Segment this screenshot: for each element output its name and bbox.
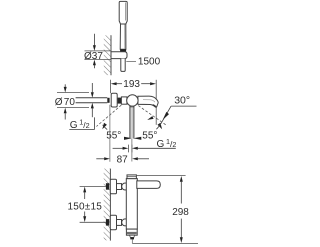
inlet nipple lines — [76, 97, 108, 99]
svg-text:55°: 55° — [142, 130, 157, 141]
svg-text:Ø37: Ø37 — [84, 51, 103, 62]
svg-text:87: 87 — [117, 155, 129, 166]
rod joint dark — [130, 106, 134, 108]
dim 150 ext top — [80, 185, 107, 187]
lever side view — [137, 181, 161, 189]
hand shower head shading — [125, 3, 127, 21]
dim arrows right pair (G1/2 inlet) — [91, 83, 93, 92]
connection 2 dark nipple — [106, 219, 109, 226]
30deg leader arrowhead — [163, 112, 169, 120]
body cap — [127, 175, 136, 179]
outlet nub — [130, 237, 134, 239]
valve circle — [127, 95, 138, 106]
dim Ø70 arrows left pair — [64, 84, 66, 87]
dim 298 ext bottom — [132, 242, 198, 244]
dim 298 ext top — [137, 175, 186, 177]
bracket (holder) — [111, 52, 127, 59]
dashed ray right 55 — [138, 106, 166, 126]
hose below bracket — [121, 59, 125, 72]
wall line bottom — [109, 169, 111, 241]
spout inner shade line — [143, 100, 155, 102]
svg-text:298: 298 — [172, 207, 189, 218]
hand shower head — [119, 1, 127, 24]
spout tip dark shade — [153, 105, 157, 107]
connection 1 dark nipple — [106, 183, 109, 190]
svg-text:193: 193 — [123, 79, 140, 90]
dim G1/2 ext bars — [128, 145, 130, 153]
ray end arrowhead right — [158, 123, 163, 129]
svg-text:1500: 1500 — [138, 57, 161, 68]
dim 87 right arrow — [132, 157, 138, 160]
30deg underline — [171, 105, 196, 107]
connection 1 nut — [117, 184, 122, 190]
svg-text:55°: 55° — [106, 130, 121, 141]
dim 150 ext bottom — [80, 221, 107, 223]
leader 1500 — [126, 60, 136, 62]
dim 193 left extension — [110, 80, 112, 93]
body bar right of valve — [138, 97, 147, 104]
dim Ø37 arrow up-tail — [93, 34, 95, 46]
leader to bottom ext — [131, 239, 133, 243]
svg-text:30°: 30° — [174, 94, 190, 106]
dim Ø70 extension lines — [57, 92, 89, 94]
dim 150 line + arrows — [83, 187, 86, 193]
dim Ø37 extension lines — [85, 50, 112, 52]
arc right 55 — [156, 124, 160, 129]
hand shower handle — [120, 24, 126, 49]
svg-text:150±15: 150±15 — [68, 201, 103, 212]
dim G1/2 right arrow + leader underline — [132, 147, 138, 150]
connection 1 ball joint — [122, 183, 129, 190]
dark nipple at wall — [107, 98, 109, 103]
30deg leader line — [161, 106, 171, 124]
dark nut — [118, 98, 122, 104]
arc left 55 — [103, 125, 108, 130]
dim 193 line + arrows — [117, 83, 123, 85]
dim Ø37 arrow bottom — [93, 60, 96, 66]
svg-text:Ø70: Ø70 — [55, 97, 76, 108]
connection 2 escutcheon — [110, 215, 116, 230]
dim 87 left extension — [109, 105, 111, 162]
body vertical — [126, 179, 137, 230]
escutcheon front — [111, 93, 117, 107]
bottom arc arrowhead right — [133, 137, 141, 140]
outlet tip — [130, 235, 135, 237]
wall hatch bottom — [104, 169, 111, 241]
ray end arrowhead left — [102, 123, 107, 129]
dashed ray left 55 — [96, 105, 121, 126]
spout — [138, 96, 158, 107]
dim 193 right extension — [155, 80, 157, 125]
connection 2 nut — [117, 220, 122, 226]
dim 87 left arrow — [96, 158, 104, 160]
G1/2 left underline leader — [69, 117, 94, 129]
connection 2 ball joint — [122, 219, 129, 226]
rod centerline extension — [131, 139, 133, 162]
handle shading — [124, 25, 126, 49]
wall hatch top — [104, 35, 111, 75]
dim 298 line + arrows — [180, 176, 183, 182]
shower outlet rod — [129, 106, 131, 139]
connection 1 escutcheon — [110, 179, 116, 194]
dim G1/2 left arrow — [113, 147, 123, 149]
bottom arc arrowhead left — [124, 137, 132, 140]
handle bottom dark block — [120, 49, 126, 52]
wall line top — [110, 35, 112, 75]
extra arrowhead on right ray — [147, 116, 153, 120]
outlet block — [126, 229, 137, 235]
connector to valve — [121, 97, 127, 104]
